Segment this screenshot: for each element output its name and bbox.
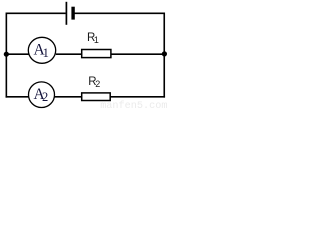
svg-text:1: 1 [94, 35, 99, 45]
wire branch1 left [6, 53, 28, 55]
svg-text:2: 2 [95, 79, 100, 89]
svg-text:1: 1 [43, 46, 49, 60]
battery long plate [65, 2, 67, 25]
battery short plate [71, 7, 74, 20]
wire branch1 middle [56, 53, 82, 55]
wire bottom-right segment [110, 96, 165, 98]
wire branch1 right [111, 53, 164, 55]
wire bottom middle segment [54, 96, 81, 98]
wire bottom-left segment [6, 96, 29, 98]
wire top-left segment [6, 13, 65, 54]
svg-text:manfen5.com: manfen5.com [100, 100, 167, 110]
wire left lower segment [5, 54, 7, 98]
svg-text:2: 2 [42, 90, 48, 104]
resistor R1 box [82, 50, 111, 58]
resistor R2 box [82, 93, 111, 101]
wire right lower segment [163, 54, 165, 98]
ammeter A2 circle [29, 82, 55, 108]
node left junction dot [4, 52, 9, 57]
ammeter A1 circle [28, 37, 55, 63]
node right junction dot [162, 51, 167, 56]
wire top-right segment [75, 13, 165, 53]
